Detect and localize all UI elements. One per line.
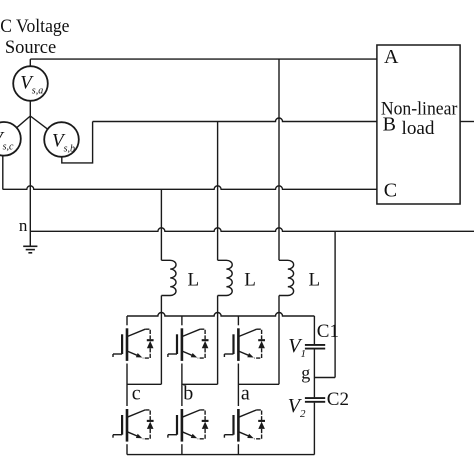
svg-text:C1: C1	[317, 321, 339, 342]
svg-text:L: L	[309, 269, 321, 290]
svg-text:C2: C2	[327, 389, 349, 410]
svg-text:AC Voltage: AC Voltage	[0, 16, 70, 37]
svg-text:L: L	[188, 269, 200, 290]
svg-text:g: g	[301, 363, 310, 383]
svg-text:Source: Source	[5, 38, 56, 58]
svg-text:a: a	[241, 383, 250, 405]
svg-text:A: A	[384, 46, 399, 68]
svg-text:n: n	[19, 216, 28, 235]
svg-text:c: c	[132, 383, 141, 405]
svg-text:C: C	[384, 180, 397, 202]
svg-text:load: load	[402, 118, 435, 139]
svg-text:b: b	[183, 383, 193, 405]
svg-text:L: L	[244, 269, 256, 290]
svg-text:Non-linear: Non-linear	[381, 99, 458, 120]
